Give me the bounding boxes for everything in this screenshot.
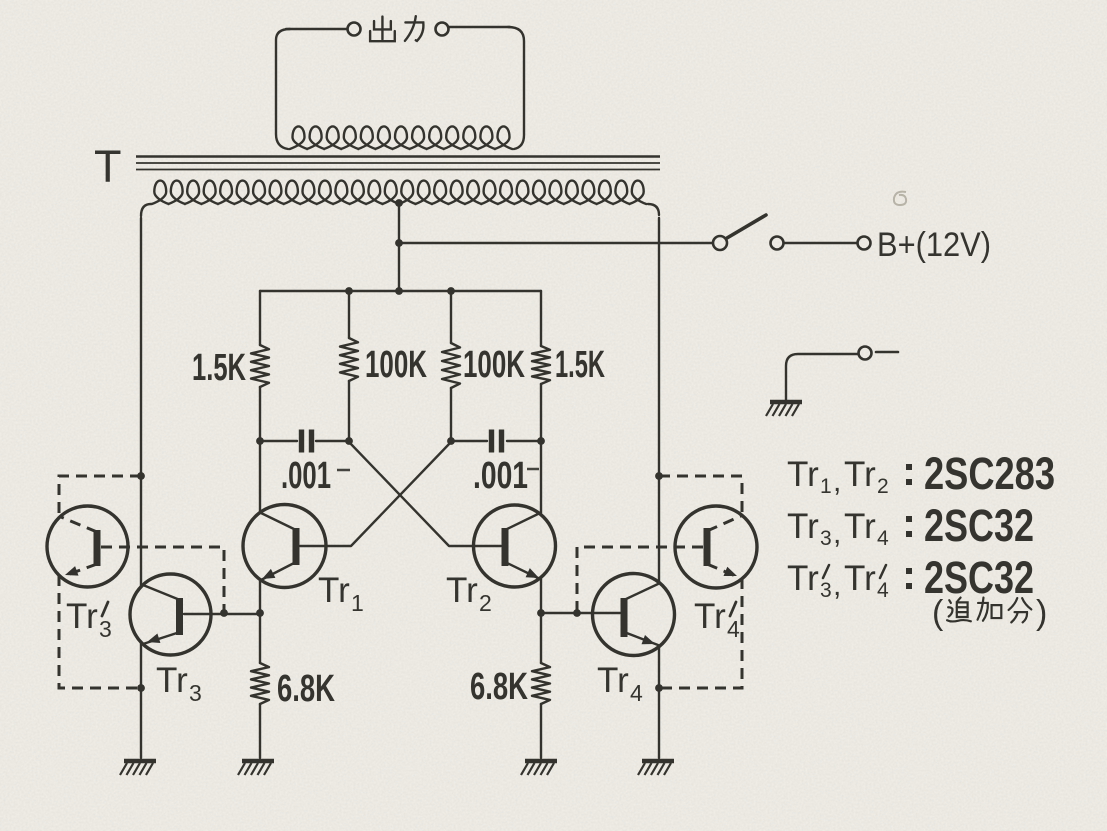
svg-text:): ) [1036,594,1047,632]
svg-text:Tr: Tr [787,507,819,546]
svg-text:4: 4 [727,616,740,642]
svg-text:100K: 100K [365,344,427,386]
svg-text:1.5K: 1.5K [192,347,246,389]
svg-text:4: 4 [877,579,889,602]
svg-text:4: 4 [877,527,889,550]
svg-text:B+(12V): B+(12V) [877,226,991,264]
svg-text:3: 3 [820,527,832,550]
svg-text:2SC283: 2SC283 [924,448,1055,499]
svg-text:(: ( [932,594,944,632]
svg-text:,: , [833,517,841,550]
svg-text:Tr: Tr [694,597,726,636]
svg-text:6.8K: 6.8K [470,666,528,708]
svg-text:Tr: Tr [446,571,478,610]
svg-text:2: 2 [479,590,492,616]
svg-text:3: 3 [189,680,202,706]
svg-text:Tr: Tr [156,661,188,700]
svg-text:Tr: Tr [844,455,876,494]
svg-text:Tr: Tr [844,559,876,598]
svg-text:Tr: Tr [318,571,350,610]
svg-text:.001: .001 [473,455,528,497]
svg-text:4: 4 [630,680,643,706]
svg-text:100K: 100K [463,344,525,386]
svg-text:Tr: Tr [597,661,629,700]
svg-text:,: , [833,465,841,498]
svg-text:,: , [833,569,841,602]
svg-text:Tr: Tr [787,455,819,494]
svg-text:2SC32: 2SC32 [924,500,1034,551]
svg-text:1: 1 [351,590,364,616]
svg-text:3: 3 [820,579,832,602]
svg-text:1.5K: 1.5K [555,344,605,386]
svg-text:.001: .001 [281,455,331,497]
svg-text:2: 2 [877,475,889,498]
svg-text:Tr: Tr [66,597,98,636]
svg-text:1: 1 [820,475,832,498]
svg-text:Tr: Tr [844,507,876,546]
svg-text:Tr: Tr [787,559,819,598]
svg-text:3: 3 [99,616,112,642]
svg-text:T: T [94,141,122,192]
svg-text:6.8K: 6.8K [277,668,335,710]
